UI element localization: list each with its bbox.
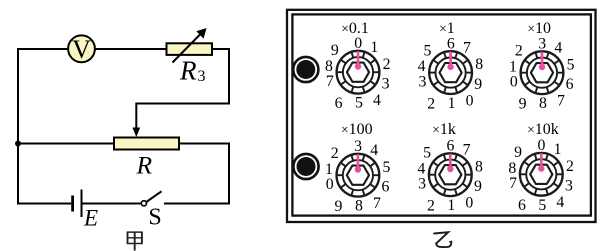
wire switch to bottom-right xyxy=(164,203,230,205)
svg-text:8: 8 xyxy=(539,95,547,112)
wire bottom-left rail to battery xyxy=(18,144,71,204)
svg-text:1: 1 xyxy=(447,197,455,214)
svg-text:4: 4 xyxy=(554,39,562,56)
svg-text:2: 2 xyxy=(383,56,391,73)
svg-text:9: 9 xyxy=(514,144,522,161)
svg-text:5: 5 xyxy=(355,95,363,112)
svg-text:6: 6 xyxy=(335,95,343,112)
wire top-left: left rail up and across to voltmeter xyxy=(18,49,68,144)
svg-text:4: 4 xyxy=(370,142,378,159)
resistance box outer frame xyxy=(287,10,596,222)
dial ×1k digits xyxy=(417,137,483,214)
svg-text:3: 3 xyxy=(538,35,546,52)
battery E plates xyxy=(73,190,82,218)
svg-text:3: 3 xyxy=(354,138,362,155)
svg-text:7: 7 xyxy=(326,73,334,90)
svg-text:0: 0 xyxy=(326,176,334,193)
svg-text:×10: ×10 xyxy=(527,20,551,37)
switch S (pivot + blade) xyxy=(141,191,161,206)
terminal post lower xyxy=(293,154,318,179)
svg-text:9: 9 xyxy=(474,178,482,195)
svg-text:×1k: ×1k xyxy=(432,121,456,138)
svg-text:6: 6 xyxy=(447,35,455,52)
svg-text:E: E xyxy=(83,205,98,230)
svg-text:×10k: ×10k xyxy=(527,121,559,138)
svg-text:9: 9 xyxy=(331,42,339,59)
dial ×0.1 digits xyxy=(325,35,391,112)
svg-text:4: 4 xyxy=(418,58,426,75)
svg-text:6: 6 xyxy=(518,197,526,214)
svg-text:5: 5 xyxy=(538,197,546,214)
dial ×0.1 knob xyxy=(337,51,380,94)
caption jia (CJK glyph drawn as strokes) xyxy=(127,232,143,251)
svg-text:3: 3 xyxy=(382,76,390,93)
svg-text:2: 2 xyxy=(427,197,435,214)
svg-text:7: 7 xyxy=(373,195,381,212)
svg-text:0: 0 xyxy=(466,93,474,110)
caption yi (CJK glyph drawn as strokes) xyxy=(434,232,451,247)
slider arrowhead onto R xyxy=(132,128,140,138)
svg-text:2: 2 xyxy=(515,42,523,59)
svg-text:8: 8 xyxy=(475,56,483,73)
dial ×100 digits xyxy=(325,138,391,215)
terminal post upper xyxy=(293,57,318,82)
dial ×1k knob xyxy=(429,153,472,196)
dial ×10k digits xyxy=(508,137,574,214)
svg-text:0: 0 xyxy=(538,137,546,154)
voltmeter V xyxy=(68,35,95,64)
svg-text:3: 3 xyxy=(198,68,206,85)
svg-text:1: 1 xyxy=(509,58,517,75)
svg-text:5: 5 xyxy=(423,144,431,161)
svg-text:0: 0 xyxy=(510,73,518,90)
svg-text:9: 9 xyxy=(335,198,343,215)
svg-text:S: S xyxy=(148,204,161,230)
node junction on left rail xyxy=(15,141,21,147)
svg-text:6: 6 xyxy=(382,179,390,196)
svg-text:R: R xyxy=(136,150,153,179)
svg-text:7: 7 xyxy=(463,141,471,158)
wire voltmeter to R3 xyxy=(95,48,167,50)
rheostat R body xyxy=(114,138,179,150)
dial ×10 digits xyxy=(509,35,575,112)
svg-text:3: 3 xyxy=(418,175,426,192)
svg-text:6: 6 xyxy=(447,137,455,154)
resistance box inner frame xyxy=(292,14,591,215)
svg-text:8: 8 xyxy=(325,58,333,75)
svg-text:4: 4 xyxy=(556,194,564,211)
svg-text:2: 2 xyxy=(331,145,339,162)
svg-text:8: 8 xyxy=(508,160,516,177)
svg-text:9: 9 xyxy=(474,76,482,93)
svg-text:6: 6 xyxy=(566,76,574,93)
dial ×1 digits xyxy=(418,35,484,112)
dial ×100 knob xyxy=(337,154,380,197)
svg-text:1: 1 xyxy=(554,141,562,158)
dial ×10k knob xyxy=(520,153,563,196)
dial ×1 knob xyxy=(429,51,472,94)
svg-text:8: 8 xyxy=(475,158,483,175)
dial ×10 knob xyxy=(521,51,564,94)
svg-text:1: 1 xyxy=(325,161,333,178)
wire junction to R left terminal xyxy=(18,143,114,145)
svg-text:R: R xyxy=(179,55,197,85)
svg-text:7: 7 xyxy=(509,175,517,192)
svg-text:1: 1 xyxy=(448,95,456,112)
svg-text:3: 3 xyxy=(418,73,426,90)
svg-text:×1: ×1 xyxy=(439,20,455,37)
svg-text:8: 8 xyxy=(355,198,363,215)
wire battery to switch xyxy=(83,203,142,205)
svg-text:2: 2 xyxy=(427,95,435,112)
svg-text:V: V xyxy=(72,35,91,64)
svg-text:2: 2 xyxy=(566,158,574,175)
wire R right terminal to bottom-right corner xyxy=(179,144,229,204)
svg-text:0: 0 xyxy=(354,35,362,52)
svg-text:5: 5 xyxy=(423,42,431,59)
wire R3 to slider branch xyxy=(136,49,229,130)
svg-text:5: 5 xyxy=(567,56,575,73)
svg-text:9: 9 xyxy=(519,95,527,112)
svg-text:1: 1 xyxy=(370,39,378,56)
svg-text:3: 3 xyxy=(565,178,573,195)
svg-text:4: 4 xyxy=(373,92,381,109)
svg-text:7: 7 xyxy=(557,93,565,110)
svg-text:×100: ×100 xyxy=(341,121,373,138)
svg-text:4: 4 xyxy=(417,160,425,177)
svg-text:5: 5 xyxy=(383,159,391,176)
svg-text:7: 7 xyxy=(463,39,471,56)
svg-text:0: 0 xyxy=(465,195,473,212)
resistor R3 (variable, arrow through body) xyxy=(167,28,213,63)
